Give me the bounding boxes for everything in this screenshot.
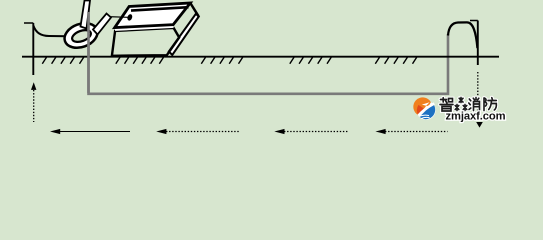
svg-text:zmjaxf.com: zmjaxf.com bbox=[446, 110, 506, 122]
